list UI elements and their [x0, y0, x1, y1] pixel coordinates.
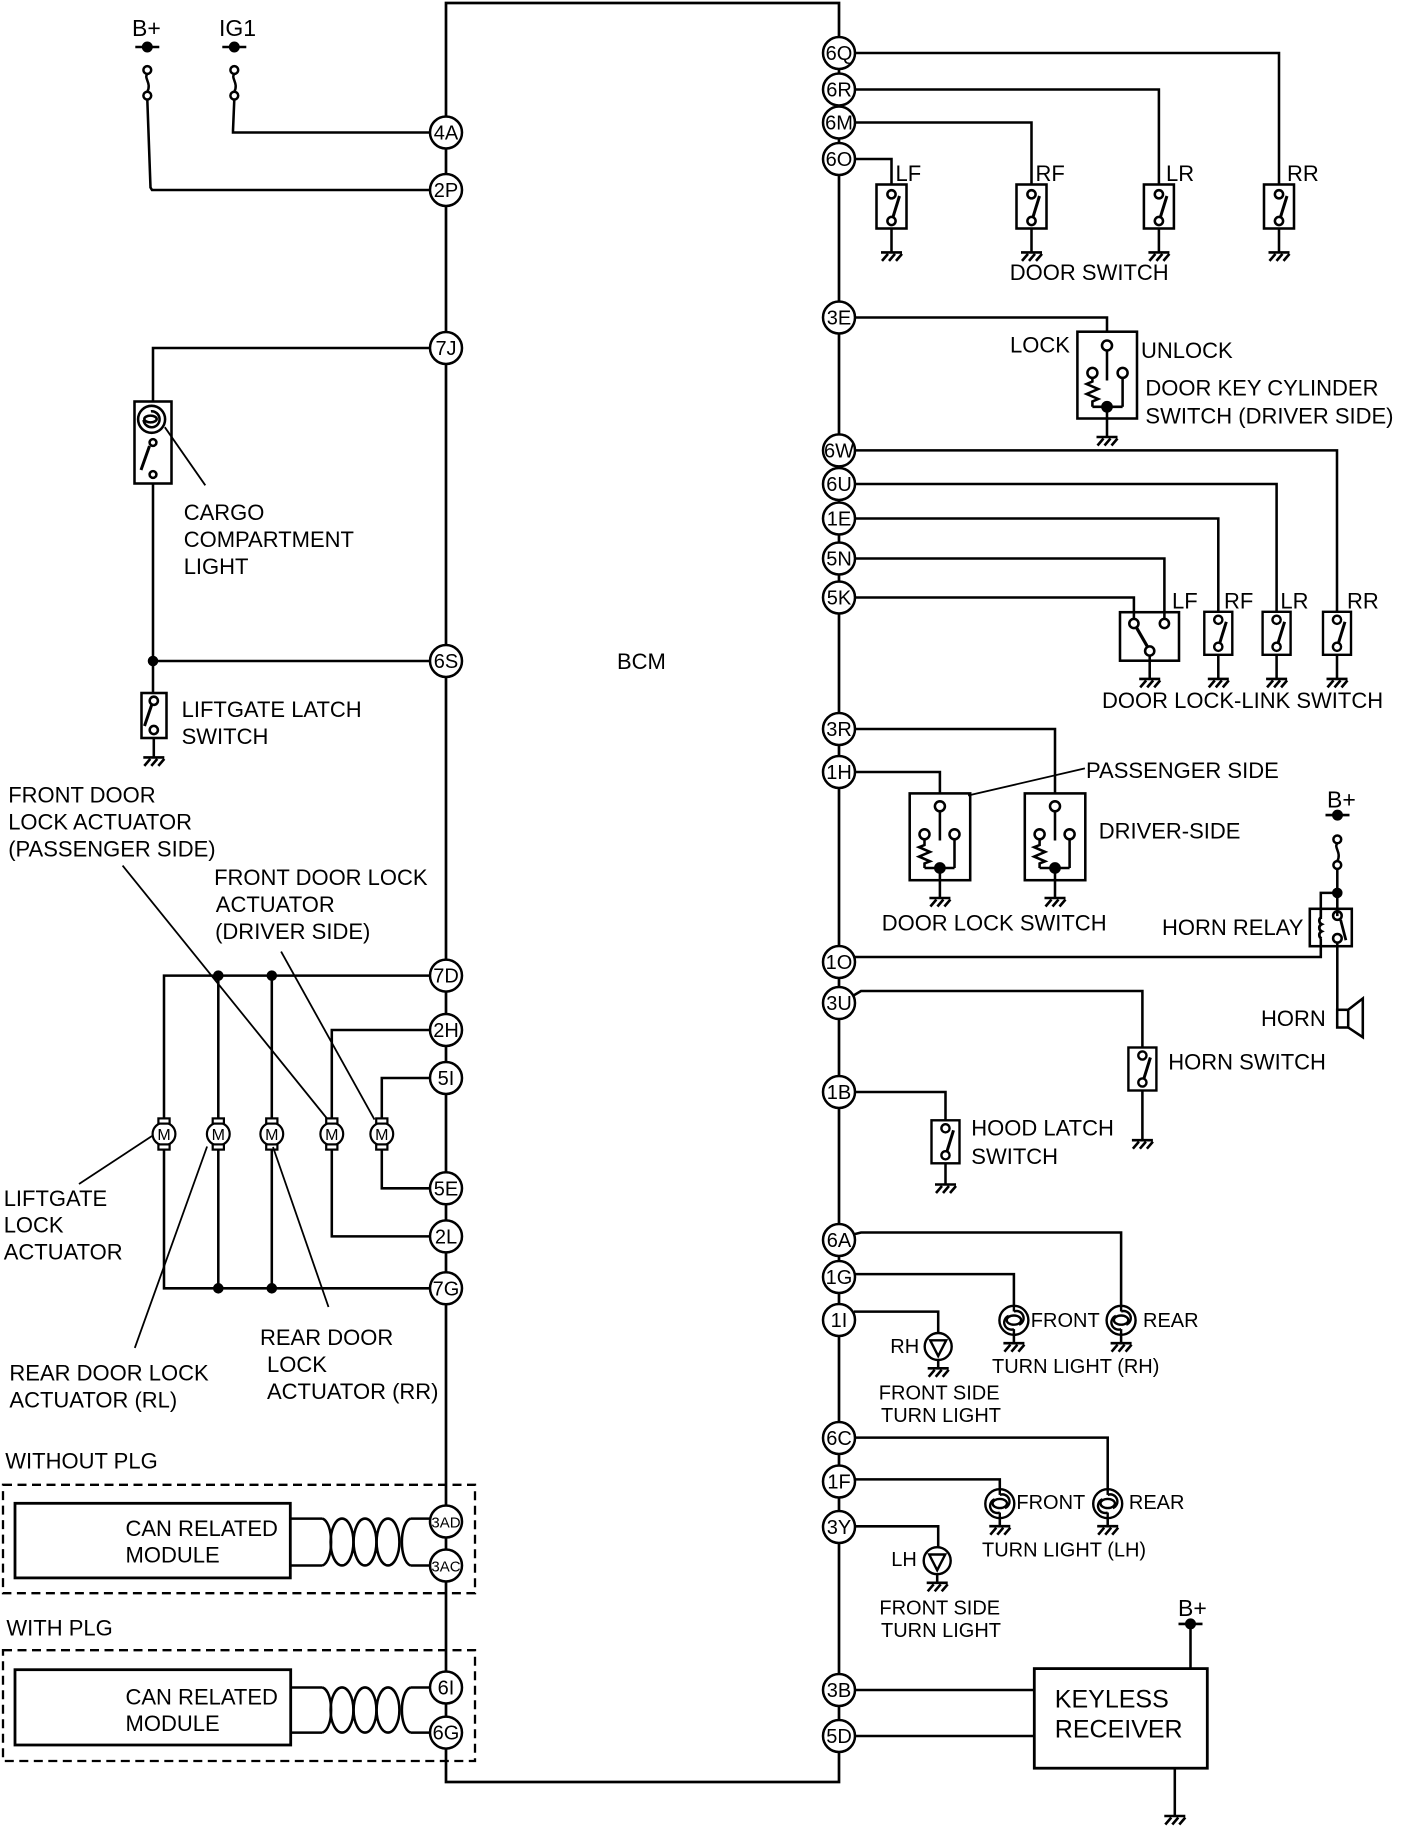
- wire module to coil top 2: [291, 1686, 323, 1689]
- wire branch to relay coil: [1321, 893, 1338, 919]
- svg-text:6R: 6R: [826, 80, 852, 102]
- svg-text:5E: 5E: [434, 1178, 458, 1200]
- wire 5N to LF lock-link: [855, 559, 1164, 620]
- wire front RH lamp ground: [1013, 1334, 1016, 1343]
- turn light rear RH: [1107, 1306, 1136, 1335]
- wire RF lock-link ground: [1217, 655, 1220, 679]
- pin 6G: [430, 1717, 462, 1749]
- pin 7G: [430, 1272, 462, 1304]
- svg-text:DOOR LOCK SWITCH: DOOR LOCK SWITCH: [882, 911, 1107, 936]
- horn relay: [1310, 909, 1352, 946]
- svg-text:2P: 2P: [434, 180, 458, 202]
- svg-text:WITHOUT PLG: WITHOUT PLG: [5, 1449, 157, 1474]
- wire 6U to LR lock-link: [855, 484, 1277, 613]
- svg-text:FRONT SIDE: FRONT SIDE: [879, 1597, 1000, 1619]
- svg-text:6U: 6U: [826, 474, 852, 496]
- junction dot 6S branch: [149, 657, 157, 665]
- motor M3 rear door lock actuator RR: [260, 1118, 283, 1149]
- dashed box with PLG: [3, 1650, 475, 1761]
- svg-text:REAR DOOR LOCK: REAR DOOR LOCK: [9, 1361, 209, 1386]
- wire 5I to M5: [382, 1078, 430, 1119]
- svg-text:PASSENGER SIDE: PASSENGER SIDE: [1086, 758, 1279, 783]
- cargo compartment light: [135, 402, 172, 484]
- pin 3Y: [823, 1511, 855, 1543]
- svg-text:2H: 2H: [433, 1020, 459, 1042]
- svg-text:3U: 3U: [826, 993, 852, 1015]
- pin 1H: [823, 756, 855, 788]
- svg-text:6I: 6I: [438, 1678, 455, 1700]
- svg-text:KEYLESS: KEYLESS: [1055, 1685, 1169, 1713]
- front side turn light LH: [924, 1547, 951, 1574]
- svg-text:LIFTGATE: LIFTGATE: [4, 1186, 108, 1211]
- wire 7G bus: [164, 1149, 430, 1288]
- fuse horn relay B+: [1333, 836, 1341, 869]
- power B+ horn relay: [1326, 787, 1356, 820]
- svg-text:7G: 7G: [433, 1278, 460, 1300]
- ground passenger door lock switch: [929, 898, 950, 907]
- CAN related module box (without PLG): [15, 1503, 290, 1578]
- wire module to coil bottom 1: [290, 1564, 322, 1567]
- pin 3B: [823, 1674, 855, 1706]
- wire front LH lamp ground: [999, 1518, 1002, 1526]
- pin 2P: [430, 174, 462, 206]
- svg-text:B+: B+: [1327, 787, 1356, 813]
- fuse B+: [143, 66, 151, 99]
- junction dot 7D M2: [214, 972, 222, 980]
- svg-text:6Q: 6Q: [826, 43, 853, 65]
- svg-text:5I: 5I: [438, 1068, 455, 1090]
- svg-text:LH: LH: [891, 1549, 917, 1571]
- ground side turn LH: [927, 1583, 948, 1592]
- svg-text:LOCK: LOCK: [4, 1213, 64, 1238]
- svg-text:DRIVER-SIDE: DRIVER-SIDE: [1099, 819, 1241, 844]
- svg-text:TURN LIGHT: TURN LIGHT: [881, 1620, 1001, 1642]
- svg-text:RECEIVER: RECEIVER: [1055, 1715, 1183, 1743]
- wire 2H to M4: [332, 1030, 430, 1119]
- ground rear turn LH: [1097, 1526, 1118, 1535]
- svg-text:3R: 3R: [826, 719, 852, 741]
- svg-text:B+: B+: [132, 15, 161, 41]
- motor M1 liftgate lock actuator: [153, 1118, 176, 1149]
- pin 6M: [823, 107, 855, 139]
- svg-text:7J: 7J: [435, 338, 456, 360]
- svg-text:DOOR LOCK-LINK SWITCH: DOOR LOCK-LINK SWITCH: [1102, 688, 1383, 713]
- wire junction to liftgate latch switch: [152, 661, 155, 693]
- svg-text:LOCK: LOCK: [1010, 333, 1070, 358]
- motor M2 rear door lock actuator RL: [207, 1118, 230, 1149]
- svg-text:6M: 6M: [825, 113, 853, 135]
- turn light front RH: [999, 1306, 1028, 1335]
- front side turn light RH: [925, 1333, 952, 1360]
- wire 3U to horn switch: [851, 991, 1142, 1048]
- wire side lamp RH ground: [937, 1360, 940, 1368]
- svg-text:1E: 1E: [827, 509, 851, 531]
- pin 3AD: [430, 1506, 462, 1538]
- leader cargo light: [165, 427, 206, 485]
- pin 4A: [430, 117, 462, 149]
- wire relay coil to 1O: [855, 940, 1321, 957]
- svg-text:HORN: HORN: [1261, 1006, 1326, 1031]
- wire 1E to RF lock-link: [855, 519, 1218, 613]
- svg-text:HOOD LATCH: HOOD LATCH: [971, 1116, 1114, 1141]
- coil harness 2: [323, 1687, 411, 1732]
- svg-text:COMPARTMENT: COMPARTMENT: [184, 527, 354, 552]
- svg-text:DOOR KEY CYLINDER: DOOR KEY CYLINDER: [1145, 376, 1378, 401]
- svg-text:SWITCH: SWITCH: [182, 724, 269, 749]
- ground RF lock-link: [1208, 679, 1229, 688]
- pin 3R: [823, 713, 855, 745]
- power B+ keyless: [1178, 1595, 1207, 1628]
- wire 6R to LR door switch: [855, 90, 1159, 185]
- door switch LF: [877, 185, 907, 229]
- pin 3E: [823, 302, 855, 334]
- wire 6C to rear turn light LH: [854, 1438, 1108, 1490]
- svg-text:6W: 6W: [824, 440, 854, 462]
- door key cylinder switch: [1077, 332, 1137, 437]
- svg-text:DOOR SWITCH: DOOR SWITCH: [1010, 260, 1169, 285]
- svg-text:1B: 1B: [827, 1082, 851, 1104]
- svg-text:3Y: 3Y: [827, 1517, 851, 1539]
- svg-text:ACTUATOR (RR): ACTUATOR (RR): [267, 1379, 439, 1404]
- pin 6Q: [823, 37, 855, 69]
- svg-text:3AC: 3AC: [431, 1559, 460, 1576]
- svg-text:(PASSENGER SIDE): (PASSENGER SIDE): [8, 837, 215, 862]
- svg-text:IG1: IG1: [219, 15, 256, 41]
- ground RR door switch: [1269, 252, 1290, 261]
- wire 6M to RF door switch: [855, 123, 1032, 185]
- wire 1G to front turn light RH: [854, 1274, 1014, 1306]
- ground keyless receiver: [1164, 1816, 1185, 1825]
- ground rear turn RH: [1111, 1343, 1132, 1352]
- svg-text:1I: 1I: [831, 1310, 848, 1332]
- door lock switch passenger: [910, 793, 971, 897]
- svg-text:LOCK: LOCK: [267, 1352, 327, 1377]
- svg-text:LF: LF: [1172, 589, 1198, 614]
- svg-text:CAN RELATED: CAN RELATED: [126, 1685, 278, 1710]
- svg-text:FRONT DOOR LOCK: FRONT DOOR LOCK: [214, 865, 428, 890]
- wire LR lock-link ground: [1275, 655, 1278, 679]
- wire module to coil top 1: [290, 1517, 322, 1520]
- svg-text:RF: RF: [1036, 161, 1065, 186]
- door lock-link switch LF: [1120, 612, 1179, 661]
- wire LF lock-link ground: [1148, 656, 1151, 679]
- wire 3Y to front side turn light LH: [854, 1526, 938, 1547]
- ground driver door lock switch: [1045, 898, 1066, 907]
- wire 1I to front side turn light RH: [854, 1312, 938, 1333]
- wire M3 to 7G: [271, 1149, 274, 1288]
- svg-text:UNLOCK: UNLOCK: [1141, 338, 1233, 363]
- ground LF door switch: [881, 252, 902, 261]
- svg-text:6S: 6S: [434, 651, 458, 673]
- BCM box: [446, 3, 839, 1782]
- wire fuse to horn relay: [1336, 869, 1339, 916]
- wire coil to 3AC: [411, 1564, 432, 1567]
- ground LR door switch: [1148, 252, 1169, 261]
- wire 6O to LF door switch: [855, 159, 892, 185]
- coil harness 1: [323, 1519, 411, 1566]
- door lock switch driver: [1025, 793, 1086, 897]
- fuse IG1: [230, 66, 238, 99]
- junction dot horn relay coil branch: [1333, 889, 1341, 897]
- svg-text:REAR DOOR: REAR DOOR: [260, 1325, 393, 1350]
- door switch RR: [1264, 185, 1294, 229]
- svg-text:HORN SWITCH: HORN SWITCH: [1168, 1050, 1326, 1075]
- door switch RF: [1017, 185, 1047, 229]
- pin 3U: [823, 987, 855, 1019]
- wire 3B to keyless receiver: [855, 1689, 1034, 1692]
- pin 5K: [823, 582, 855, 614]
- svg-text:FRONT: FRONT: [1031, 1310, 1100, 1332]
- ground LF lock-link: [1139, 679, 1160, 688]
- svg-text:TURN LIGHT (RH): TURN LIGHT (RH): [992, 1356, 1159, 1378]
- horn switch: [1128, 1048, 1156, 1091]
- leader passenger actuator to M4: [123, 866, 329, 1121]
- pin 7D: [430, 960, 462, 992]
- svg-text:FRONT SIDE: FRONT SIDE: [879, 1383, 1000, 1405]
- svg-text:2L: 2L: [435, 1226, 457, 1248]
- wire 1F to front turn light LH: [854, 1479, 1000, 1489]
- svg-text:6A: 6A: [827, 1230, 852, 1252]
- wire 7D to M2: [217, 976, 220, 1119]
- power B+ top: [132, 15, 161, 51]
- svg-text:SWITCH (DRIVER SIDE): SWITCH (DRIVER SIDE): [1145, 404, 1393, 429]
- wire cargo light to 6S: [153, 484, 430, 662]
- svg-text:REAR: REAR: [1129, 1492, 1185, 1514]
- wire 6A to rear turn light RH: [851, 1233, 1121, 1307]
- svg-text:MODULE: MODULE: [126, 1711, 220, 1736]
- svg-text:REAR: REAR: [1143, 1310, 1199, 1332]
- svg-text:LR: LR: [1280, 589, 1308, 614]
- junction dot 7D M3: [268, 972, 276, 980]
- wire B+ to 2P: [147, 99, 430, 190]
- CAN related module box (with PLG): [15, 1670, 291, 1745]
- pin 6A: [823, 1224, 855, 1256]
- wire 5K to LF lock-link: [855, 598, 1134, 620]
- wire 3E to key cylinder switch: [855, 318, 1107, 332]
- pin 6W: [823, 434, 855, 466]
- svg-text:5N: 5N: [826, 549, 852, 571]
- svg-text:RR: RR: [1347, 589, 1379, 614]
- svg-text:LR: LR: [1166, 161, 1194, 186]
- junction dot 7G M2: [214, 1284, 222, 1292]
- svg-text:TURN LIGHT (LH): TURN LIGHT (LH): [982, 1539, 1146, 1561]
- dashed box without PLG: [3, 1485, 475, 1593]
- turn light rear LH: [1093, 1489, 1122, 1518]
- svg-text:LOCK ACTUATOR: LOCK ACTUATOR: [8, 810, 192, 835]
- svg-text:6C: 6C: [826, 1428, 852, 1450]
- svg-text:5D: 5D: [826, 1726, 852, 1748]
- svg-text:ACTUATOR (RL): ACTUATOR (RL): [9, 1388, 177, 1413]
- wire horn switch ground: [1141, 1091, 1144, 1140]
- ground side turn RH: [928, 1368, 949, 1377]
- svg-text:5K: 5K: [827, 588, 852, 610]
- wire 6Q to RR door switch: [855, 53, 1279, 185]
- svg-text:FRONT DOOR: FRONT DOOR: [8, 783, 155, 808]
- ground LR lock-link: [1266, 679, 1287, 688]
- svg-text:ACTUATOR: ACTUATOR: [4, 1240, 123, 1265]
- wire hood latch ground: [944, 1163, 947, 1184]
- pin 5N: [823, 543, 855, 575]
- wire IG1 to 4A: [233, 99, 430, 132]
- pin 1O: [823, 946, 855, 978]
- svg-text:CARGO: CARGO: [184, 500, 265, 525]
- horn: [1337, 999, 1363, 1038]
- door lock-link switch RF: [1204, 612, 1232, 655]
- wire RR lock-link ground: [1336, 655, 1339, 679]
- pin 6R: [823, 74, 855, 106]
- wire LF switch ground: [890, 229, 893, 253]
- wire keyless receiver ground: [1174, 1768, 1177, 1815]
- wire M5 to 5E: [382, 1149, 430, 1188]
- svg-text:WITH PLG: WITH PLG: [6, 1616, 112, 1641]
- svg-text:4A: 4A: [434, 123, 459, 145]
- leader rear door lock actuator RL to M2: [135, 1147, 207, 1348]
- svg-text:6G: 6G: [433, 1723, 460, 1745]
- svg-text:1H: 1H: [826, 762, 852, 784]
- wire latch to ground: [153, 738, 156, 757]
- svg-text:HORN RELAY: HORN RELAY: [1162, 915, 1304, 940]
- leader driver actuator to M5: [281, 952, 374, 1120]
- svg-text:3E: 3E: [827, 308, 851, 330]
- wire LR switch ground: [1158, 229, 1161, 253]
- wire 7D bus: [164, 976, 430, 1119]
- svg-text:LF: LF: [896, 161, 922, 186]
- svg-text:1G: 1G: [826, 1267, 853, 1289]
- wire B+ to keyless receiver: [1189, 1624, 1192, 1669]
- svg-text:ACTUATOR: ACTUATOR: [216, 892, 335, 917]
- leader rear door lock actuator RR to M3: [273, 1147, 329, 1307]
- door switch LR: [1144, 185, 1174, 229]
- wire rear LH lamp ground: [1106, 1518, 1109, 1526]
- ground liftgate latch: [143, 757, 164, 766]
- pin 6S: [430, 645, 462, 677]
- power IG1: [219, 15, 256, 51]
- svg-text:1O: 1O: [826, 952, 853, 974]
- wire RR switch ground: [1278, 229, 1281, 253]
- keyless receiver box: [1034, 1669, 1207, 1769]
- svg-text:FRONT: FRONT: [1016, 1492, 1085, 1514]
- liftgate latch switch: [142, 693, 167, 738]
- svg-text:(DRIVER SIDE): (DRIVER SIDE): [215, 919, 370, 944]
- wire 7J to cargo light: [153, 348, 430, 402]
- door lock-link switch LR: [1263, 612, 1291, 655]
- door lock-link switch RR: [1323, 612, 1351, 655]
- pin 6C: [823, 1422, 855, 1454]
- motor M5 front door lock actuator driver: [370, 1118, 393, 1149]
- svg-text:3AD: 3AD: [431, 1515, 460, 1532]
- ground front turn RH: [1003, 1343, 1024, 1352]
- svg-text:3B: 3B: [827, 1680, 851, 1702]
- svg-text:6O: 6O: [826, 149, 853, 171]
- svg-text:MODULE: MODULE: [126, 1543, 220, 1568]
- wire coil to 6I: [411, 1686, 432, 1689]
- wire coil to 6G: [411, 1731, 432, 1734]
- leader passenger side: [968, 768, 1085, 795]
- wire relay contact to horn: [1336, 943, 1339, 1011]
- svg-text:TURN LIGHT: TURN LIGHT: [881, 1405, 1001, 1427]
- ground horn switch: [1132, 1140, 1153, 1149]
- pin 6I: [430, 1672, 462, 1704]
- turn light front LH: [985, 1489, 1014, 1518]
- pin 2H: [430, 1014, 462, 1046]
- wire coil to 3AD: [411, 1517, 432, 1520]
- svg-text:7D: 7D: [433, 966, 459, 988]
- pin 7J: [430, 332, 462, 364]
- pin 2L: [430, 1220, 462, 1252]
- pin 1I: [823, 1304, 855, 1336]
- pin 1G: [823, 1261, 855, 1293]
- wire side lamp LH ground: [936, 1574, 939, 1582]
- svg-text:RH: RH: [890, 1336, 919, 1358]
- wire 6W to RR lock-link: [855, 450, 1337, 612]
- ground front turn LH: [989, 1526, 1010, 1535]
- leader liftgate lock actuator to M1: [79, 1136, 152, 1184]
- pin 5I: [430, 1062, 462, 1094]
- pin 1E: [823, 503, 855, 535]
- svg-text:RR: RR: [1287, 161, 1319, 186]
- hood latch switch: [932, 1120, 960, 1163]
- pin 5E: [430, 1172, 462, 1204]
- pin 1F: [823, 1466, 855, 1498]
- wire 1B to hood latch switch: [855, 1092, 946, 1120]
- wire 1H to passenger door lock switch: [855, 772, 940, 793]
- svg-text:SWITCH: SWITCH: [971, 1144, 1058, 1169]
- ground door key cylinder switch: [1097, 437, 1118, 446]
- wire RF switch ground: [1030, 229, 1033, 253]
- junction dot 7G M3: [268, 1284, 276, 1292]
- svg-text:CAN RELATED: CAN RELATED: [126, 1516, 278, 1541]
- wire 3R to driver door lock switch: [855, 729, 1055, 793]
- svg-text:LIFTGATE LATCH: LIFTGATE LATCH: [182, 697, 362, 722]
- wire 7D to M3: [271, 976, 274, 1119]
- svg-text:LIGHT: LIGHT: [184, 554, 249, 579]
- motor M4 front door lock actuator passenger: [320, 1118, 343, 1149]
- ground RF door switch: [1021, 252, 1042, 261]
- pin 6O: [823, 143, 855, 175]
- ground RR lock-link: [1327, 679, 1348, 688]
- svg-text:RF: RF: [1224, 589, 1253, 614]
- wire module to coil bottom 2: [291, 1731, 323, 1734]
- wire 5D to keyless receiver: [855, 1735, 1034, 1738]
- pin 5D: [823, 1720, 855, 1752]
- wire M2 to 7G: [217, 1149, 220, 1288]
- svg-text:1F: 1F: [827, 1472, 850, 1494]
- wire M4 to 2L: [332, 1149, 430, 1236]
- svg-text:BCM: BCM: [617, 649, 666, 674]
- wire rear RH lamp ground: [1120, 1334, 1123, 1343]
- svg-text:B+: B+: [1178, 1595, 1207, 1621]
- pin 3AC: [430, 1550, 462, 1582]
- pin 1B: [823, 1076, 855, 1108]
- ground hood latch switch: [935, 1185, 956, 1194]
- pin 6U: [823, 468, 855, 500]
